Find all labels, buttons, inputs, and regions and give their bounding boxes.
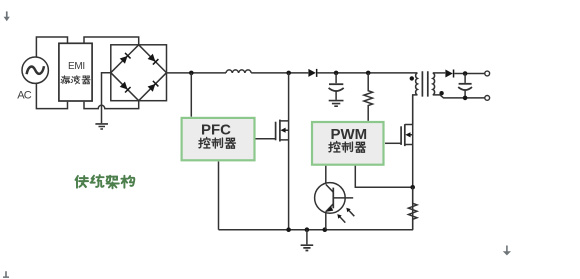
- wire secondary top lead: [433, 72, 446, 74]
- wire PWM box bottom L to FET source node: [355, 166, 412, 188]
- resistor R2: [408, 187, 417, 229]
- node J4: [366, 71, 371, 76]
- wire Q1 drain/source vertical: [288, 73, 290, 230]
- node J7: [323, 227, 328, 232]
- AC sine wave: [27, 66, 44, 74]
- PWM controller U2 box: [312, 122, 384, 165]
- EMI filter box: [59, 43, 92, 101]
- bridge diode D4 (bottom-right, points NE): [147, 81, 158, 92]
- wire main rail bridge to inductor: [167, 72, 227, 74]
- wire D6 to output: [454, 73, 485, 75]
- bridge diode D2 (top-right, points SE): [147, 54, 158, 65]
- grey arrow bottom-right: [503, 246, 511, 256]
- grey arrow bottom-left (clipped): [3, 271, 9, 278]
- inductor L1: [226, 70, 251, 73]
- wire PFC box bottom to bottom rail: [218, 162, 220, 230]
- wire PWM gate: [385, 142, 401, 144]
- wire bottom rail EMI to bridge (hops over ground stem): [84, 101, 139, 109]
- wire PFC gate: [256, 138, 276, 140]
- wire primary bottom lead: [413, 95, 418, 125]
- node J8: [463, 71, 468, 76]
- MOSFET Q1 (PFC): [275, 122, 277, 141]
- wire opto emitter to bottom rail: [325, 212, 327, 230]
- node J5: [286, 227, 291, 232]
- output terminal +: [485, 71, 490, 76]
- wire PWM box bottom to opto collector: [325, 166, 327, 183]
- transformer T1 primary: [416, 73, 418, 95]
- bridge diode D1 (top-left, points NE): [120, 53, 131, 64]
- label 滤波器: [61, 76, 90, 84]
- transformer core: [422, 71, 427, 96]
- bridge diamond: [111, 45, 167, 101]
- opto base stub: [333, 197, 353, 199]
- capacitor C2 (output): [464, 74, 466, 83]
- node J6 (ground tap): [305, 227, 310, 232]
- node J10: [410, 185, 415, 190]
- optocoupler U3 phototransistor: [315, 183, 346, 214]
- svg-text:EMI: EMI: [68, 61, 85, 72]
- wire PFC node to controller: [190, 73, 192, 117]
- wire EMI top to bridge top: [84, 37, 139, 45]
- wire AC bottom to EMI bottom: [36, 83, 67, 108]
- ground GND1: [95, 124, 108, 129]
- bottom rail: [219, 229, 414, 231]
- PFC controller U1 box: [182, 118, 255, 160]
- grey arrow top-left: [4, 11, 10, 21]
- wire bridge left vertex to ground: [102, 73, 111, 124]
- resistor R1: [364, 73, 373, 121]
- output terminal -: [485, 96, 490, 101]
- primary polarity dot: [410, 76, 414, 80]
- MOSFET Q2 (PWM): [400, 126, 402, 145]
- AC source V1: [22, 57, 48, 83]
- ground GND2: [329, 101, 344, 107]
- svg-text:AC: AC: [17, 89, 32, 101]
- wire Q2 drain up to transformer / source down: [412, 95, 414, 230]
- transformer T1 secondary: [433, 73, 435, 95]
- label 控制器 (PWM): [329, 142, 365, 153]
- node J3: [334, 71, 339, 76]
- label 控制器 (PFC): [199, 138, 235, 149]
- diode D6 (output): [445, 70, 454, 78]
- wire secondary bottom rail: [433, 95, 485, 98]
- secondary polarity dot: [439, 91, 443, 95]
- ground GND3: [306, 230, 308, 245]
- node J2: [286, 71, 291, 76]
- capacitor C1 (bulk, polarized): [335, 73, 337, 83]
- label 传统架构: [76, 175, 135, 188]
- wire diode D5 to transformer: [317, 72, 417, 74]
- bridge rectifier outer square: [111, 45, 167, 101]
- wire inductor to diode D5: [251, 72, 308, 74]
- node J1: [189, 71, 194, 76]
- svg-text:PFC: PFC: [201, 122, 231, 139]
- opto light arrows: [337, 208, 354, 223]
- node J9: [463, 96, 468, 101]
- svg-text:PWM: PWM: [331, 126, 368, 143]
- diode D5 (boost): [308, 69, 317, 77]
- bridge diode D3 (bottom-left, points SE): [120, 82, 131, 93]
- wire AC top to EMI top: [36, 37, 67, 57]
